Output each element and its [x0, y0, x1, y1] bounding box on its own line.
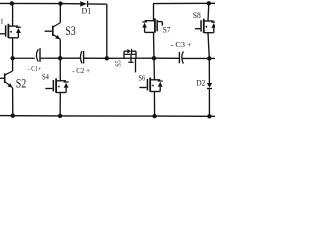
svg-text:S3: S3 [65, 23, 76, 38]
svg-text:- C1+: - C1+ [28, 64, 41, 73]
svg-text:S6: S6 [139, 72, 146, 82]
svg-text:D1: D1 [82, 7, 92, 16]
svg-text:D2: D2 [196, 78, 205, 88]
svg-text:S7: S7 [163, 24, 171, 34]
svg-text:S2: S2 [16, 75, 27, 90]
svg-text:S1: S1 [0, 17, 4, 26]
svg-text:- C2 +: - C2 + [72, 66, 90, 75]
svg-text:- C3 +: - C3 + [171, 40, 192, 49]
svg-text:S4: S4 [42, 73, 49, 82]
svg-text:S8: S8 [193, 10, 201, 20]
svg-text:S5: S5 [113, 60, 122, 67]
